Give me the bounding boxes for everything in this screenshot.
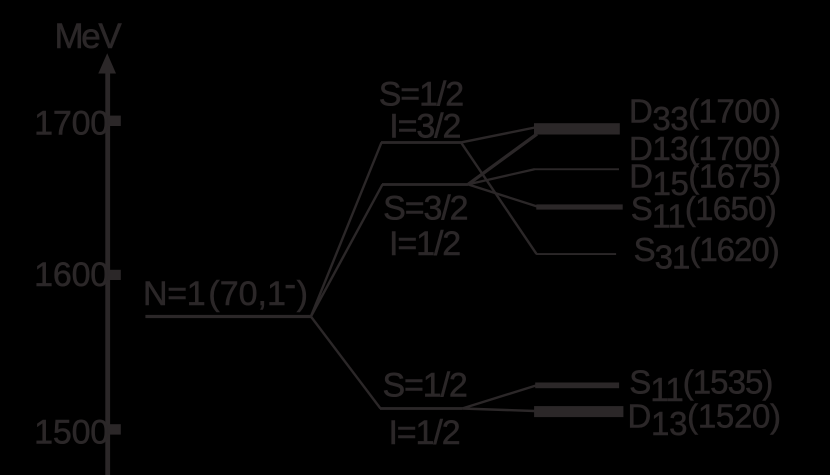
svg-text:I=3/2: I=3/2	[389, 107, 460, 145]
level bar D33(1700)	[534, 123, 620, 134]
axis arrowhead	[98, 53, 116, 73]
svg-text:S=1/2: S=1/2	[382, 367, 466, 405]
wire: upper level to D33(1700)	[461, 128, 535, 143]
svg-text:(70,1: (70,1	[208, 275, 286, 313]
wire: middle level to D13(1700)	[468, 134, 537, 184]
wire: vertex to upper multiplet level	[311, 142, 382, 316]
tick 1600	[110, 270, 121, 280]
svg-text:I=1/2: I=1/2	[388, 414, 459, 452]
wire: vertex to lower multiplet level	[311, 317, 381, 409]
N=1 (70,1-) parent level line	[145, 315, 311, 318]
level line D15(1675)	[534, 168, 619, 170]
wire: upper level to S31(1620)	[461, 142, 537, 254]
wire: lower level to S11(1535)	[462, 386, 536, 409]
level line S31(1620)	[536, 253, 616, 255]
svg-text:1600: 1600	[34, 256, 109, 294]
wire: lower level to D13(1520)	[462, 409, 534, 412]
tick 1700	[110, 116, 121, 126]
svg-text:N=1: N=1	[143, 275, 205, 313]
upper multiplet level line (S=1/2 I=3/2)	[381, 141, 461, 144]
level bar S11(1535)	[535, 383, 619, 389]
svg-text:S=3/2: S=3/2	[383, 189, 467, 227]
energy axis shaft	[105, 66, 110, 475]
svg-text:I=1/2: I=1/2	[389, 225, 460, 263]
svg-text:1500: 1500	[34, 413, 109, 451]
level bar S11(1650)	[536, 204, 622, 209]
svg-text:1700: 1700	[34, 105, 109, 143]
svg-text:MeV: MeV	[55, 17, 123, 56]
lower multiplet level line (S=1/2 I=1/2)	[380, 407, 462, 410]
wire: vertex to middle multiplet level	[311, 184, 383, 316]
svg-text:): )	[297, 275, 308, 313]
tick 1500	[110, 424, 121, 434]
superscript minus of 1-	[286, 285, 295, 288]
level bar D13(1520)	[534, 406, 623, 417]
middle multiplet level line (S=3/2 I=1/2)	[382, 183, 468, 186]
wire: middle level to D15(1675)	[468, 169, 535, 184]
wire: middle level to S11(1650)	[468, 184, 537, 206]
